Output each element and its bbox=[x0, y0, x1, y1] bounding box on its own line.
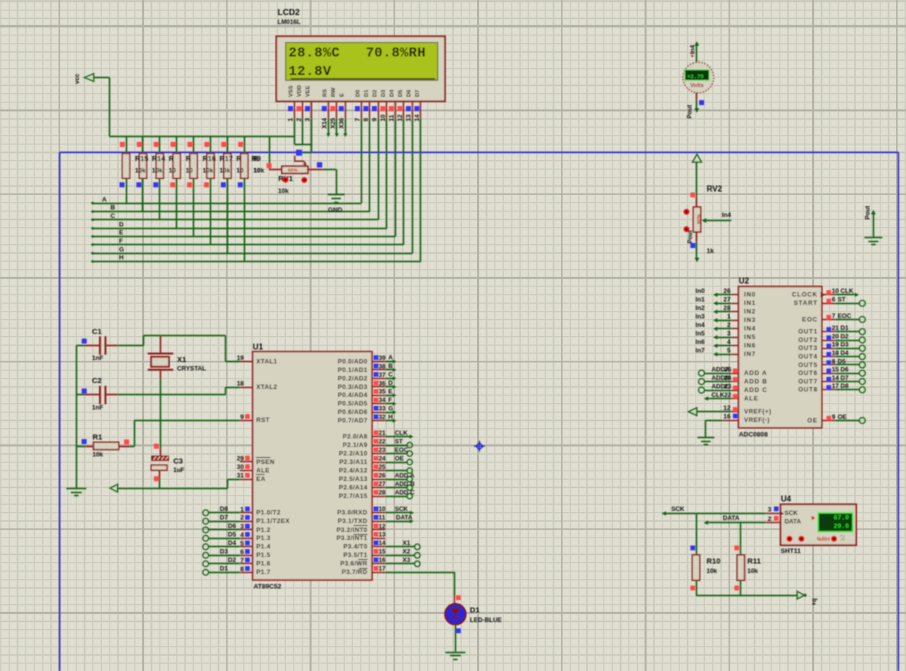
svg-text:IN7: IN7 bbox=[744, 351, 756, 358]
svg-text:P2.2/A10: P2.2/A10 bbox=[339, 451, 368, 458]
svg-text:29: 29 bbox=[237, 455, 245, 462]
svg-text:D: D bbox=[119, 222, 124, 229]
svg-text:P3.3/INT1: P3.3/INT1 bbox=[336, 535, 367, 542]
svg-text:20: 20 bbox=[832, 333, 840, 340]
svg-text:P3.4/T0: P3.4/T0 bbox=[343, 544, 367, 551]
svg-text:A: A bbox=[388, 355, 393, 362]
svg-text:OUT7: OUT7 bbox=[798, 378, 818, 385]
svg-text:START: START bbox=[794, 300, 818, 307]
svg-text:1uF: 1uF bbox=[173, 467, 184, 474]
svg-text:D1: D1 bbox=[364, 90, 370, 97]
svg-text:VREF(-): VREF(-) bbox=[744, 417, 770, 424]
svg-text:C2: C2 bbox=[92, 376, 102, 385]
svg-text:LM016L: LM016L bbox=[278, 19, 301, 26]
svg-text:23: 23 bbox=[724, 384, 732, 391]
svg-text:C1: C1 bbox=[92, 327, 102, 336]
svg-text:R: R bbox=[186, 154, 192, 163]
svg-text:17: 17 bbox=[379, 566, 387, 573]
svg-text:P2.1/A9: P2.1/A9 bbox=[343, 442, 368, 449]
svg-text:D3: D3 bbox=[841, 342, 850, 349]
svg-text:In7: In7 bbox=[696, 348, 706, 355]
svg-text:P2.0/A8: P2.0/A8 bbox=[343, 434, 368, 441]
svg-text:OUT8: OUT8 bbox=[798, 387, 818, 394]
svg-text:D6: D6 bbox=[406, 90, 412, 97]
svg-text:15: 15 bbox=[379, 549, 387, 556]
svg-text:G: G bbox=[388, 405, 393, 412]
svg-text:5: 5 bbox=[727, 348, 731, 355]
svg-text:B: B bbox=[388, 363, 393, 370]
svg-text:P0.4/AD4: P0.4/AD4 bbox=[338, 392, 368, 399]
svg-text:OE: OE bbox=[807, 417, 818, 424]
svg-text:U2: U2 bbox=[739, 277, 750, 286]
svg-text:CRYSTAL: CRYSTAL bbox=[177, 366, 206, 373]
svg-text:E: E bbox=[339, 93, 345, 97]
svg-text:P3.7/RD: P3.7/RD bbox=[342, 569, 368, 576]
svg-text:14: 14 bbox=[379, 540, 387, 547]
svg-text:OUT6: OUT6 bbox=[798, 370, 818, 377]
svg-text:C: C bbox=[111, 213, 116, 220]
svg-text:P1.2: P1.2 bbox=[256, 527, 271, 534]
svg-text:IN0: IN0 bbox=[744, 292, 756, 299]
svg-text:28: 28 bbox=[379, 490, 387, 497]
svg-text:D4: D4 bbox=[228, 540, 237, 547]
svg-text:XTAL1: XTAL1 bbox=[256, 358, 277, 365]
svg-text:RST: RST bbox=[256, 417, 270, 424]
svg-text:10k: 10k bbox=[93, 451, 104, 458]
svg-text:10k: 10k bbox=[278, 188, 289, 195]
svg-text:39: 39 bbox=[379, 355, 387, 362]
svg-text:DATA: DATA bbox=[785, 519, 802, 526]
svg-text:IN3: IN3 bbox=[744, 317, 756, 324]
svg-text:C3: C3 bbox=[173, 456, 183, 465]
svg-text:D7: D7 bbox=[415, 90, 421, 97]
svg-text:38: 38 bbox=[379, 363, 387, 370]
svg-text:RV2: RV2 bbox=[707, 184, 723, 193]
svg-text:VSS: VSS bbox=[289, 85, 295, 97]
svg-text:P0.3/AD3: P0.3/AD3 bbox=[338, 384, 368, 391]
svg-text:ADD B: ADD B bbox=[395, 481, 415, 488]
svg-text:2: 2 bbox=[768, 516, 772, 523]
svg-text:31: 31 bbox=[237, 473, 245, 480]
svg-text:X3: X3 bbox=[340, 121, 346, 129]
svg-text:10: 10 bbox=[169, 167, 177, 174]
svg-text:50%: 50% bbox=[288, 167, 298, 173]
svg-text:30: 30 bbox=[237, 464, 245, 471]
svg-text:25: 25 bbox=[724, 367, 732, 374]
svg-text:U1: U1 bbox=[253, 343, 264, 352]
svg-text:37: 37 bbox=[379, 372, 387, 379]
svg-text:P2.6/A14: P2.6/A14 bbox=[339, 485, 368, 492]
svg-text:1: 1 bbox=[288, 118, 295, 122]
svg-text:10: 10 bbox=[186, 167, 194, 174]
svg-text:D3: D3 bbox=[220, 549, 229, 556]
svg-text:SCK: SCK bbox=[785, 510, 799, 517]
svg-text:ALE: ALE bbox=[256, 467, 270, 474]
svg-text:A: A bbox=[102, 196, 107, 203]
svg-text:In4: In4 bbox=[696, 322, 706, 329]
svg-text:D5: D5 bbox=[228, 532, 237, 539]
svg-text:8: 8 bbox=[832, 358, 836, 365]
svg-text:P2.5/A13: P2.5/A13 bbox=[339, 476, 368, 483]
svg-text:1: 1 bbox=[727, 314, 731, 321]
svg-text:12.8V: 12.8V bbox=[289, 65, 332, 80]
svg-text:P1.3: P1.3 bbox=[256, 535, 271, 542]
svg-text:ADD C: ADD C bbox=[744, 387, 767, 394]
svg-text:29.0: 29.0 bbox=[834, 523, 850, 530]
svg-text:ADD B: ADD B bbox=[744, 379, 767, 386]
svg-text:26: 26 bbox=[379, 473, 387, 480]
svg-text:OUT2: OUT2 bbox=[798, 337, 818, 344]
svg-text:R14: R14 bbox=[152, 154, 165, 163]
svg-text:2: 2 bbox=[240, 515, 244, 522]
svg-text:24: 24 bbox=[724, 375, 732, 382]
svg-text:P2.4/A12: P2.4/A12 bbox=[339, 468, 368, 475]
svg-text:1k: 1k bbox=[707, 248, 715, 255]
svg-text:vcc: vcc bbox=[74, 73, 81, 84]
svg-text:3: 3 bbox=[305, 118, 312, 122]
svg-text:D2: D2 bbox=[228, 557, 237, 564]
svg-text:22: 22 bbox=[379, 439, 387, 446]
svg-text:1: 1 bbox=[240, 506, 244, 513]
svg-text:27: 27 bbox=[379, 481, 387, 488]
svg-text:H: H bbox=[388, 414, 393, 421]
svg-text:In0: In0 bbox=[696, 288, 706, 295]
svg-text:R11: R11 bbox=[747, 556, 761, 565]
svg-text:Pout: Pout bbox=[688, 230, 694, 243]
svg-text:7: 7 bbox=[240, 557, 244, 564]
svg-text:RS: RS bbox=[322, 89, 328, 97]
svg-text:R1: R1 bbox=[93, 432, 103, 441]
svg-text:X1: X1 bbox=[177, 355, 187, 364]
svg-text:IN5: IN5 bbox=[744, 334, 756, 341]
svg-text:13: 13 bbox=[406, 114, 413, 122]
svg-text:IN6: IN6 bbox=[744, 343, 756, 350]
svg-text:R: R bbox=[236, 154, 242, 163]
svg-text:LED-BLUE: LED-BLUE bbox=[470, 617, 502, 624]
svg-text:%RH: %RH bbox=[817, 537, 830, 543]
svg-text:27: 27 bbox=[723, 297, 731, 304]
svg-text:X2: X2 bbox=[403, 549, 411, 556]
svg-text:P2.3/A11: P2.3/A11 bbox=[339, 459, 368, 466]
svg-text:3: 3 bbox=[727, 331, 731, 338]
svg-text:U4: U4 bbox=[781, 495, 792, 504]
svg-text:18: 18 bbox=[237, 381, 245, 388]
svg-text:EOC: EOC bbox=[395, 447, 409, 454]
svg-text:P3.0/RXD: P3.0/RXD bbox=[337, 510, 368, 517]
svg-text:H: H bbox=[119, 255, 124, 262]
svg-text:10k: 10k bbox=[747, 568, 758, 575]
svg-text:R10: R10 bbox=[707, 556, 721, 565]
svg-text:E: E bbox=[388, 389, 392, 396]
svg-text:11: 11 bbox=[389, 114, 396, 121]
svg-text:P0.0/AD0: P0.0/AD0 bbox=[338, 358, 368, 365]
svg-text:In6: In6 bbox=[696, 339, 706, 346]
svg-text:In4: In4 bbox=[722, 212, 732, 219]
svg-text:G: G bbox=[119, 246, 124, 253]
svg-text:16: 16 bbox=[723, 414, 731, 421]
svg-text:P0.6/AD6: P0.6/AD6 bbox=[338, 409, 368, 416]
svg-text:SCK: SCK bbox=[395, 506, 409, 513]
svg-text:10k: 10k bbox=[220, 167, 231, 174]
svg-text:IN1: IN1 bbox=[744, 300, 756, 307]
svg-text:50%: 50% bbox=[696, 214, 702, 224]
svg-text:VREF(+): VREF(+) bbox=[744, 409, 771, 416]
svg-text:P3.5/T1: P3.5/T1 bbox=[343, 552, 367, 559]
svg-text:DATA: DATA bbox=[723, 515, 740, 522]
svg-text:ADD C: ADD C bbox=[395, 489, 415, 496]
svg-text:2: 2 bbox=[727, 322, 731, 329]
svg-text:D2: D2 bbox=[372, 90, 378, 97]
svg-text:IN2: IN2 bbox=[744, 309, 756, 316]
svg-text:PSEN: PSEN bbox=[256, 459, 275, 466]
svg-text:X1: X1 bbox=[403, 540, 411, 547]
svg-text:RW: RW bbox=[331, 87, 337, 97]
svg-text:10k: 10k bbox=[254, 167, 265, 174]
svg-text:24: 24 bbox=[379, 456, 387, 463]
svg-text:1nF: 1nF bbox=[92, 355, 103, 362]
svg-text:AT89C52: AT89C52 bbox=[254, 584, 282, 591]
svg-text:10k: 10k bbox=[152, 167, 163, 174]
svg-text:P2.7/A15: P2.7/A15 bbox=[339, 493, 368, 500]
svg-text:Pout: Pout bbox=[687, 105, 694, 119]
svg-text:XTAL2: XTAL2 bbox=[256, 384, 277, 391]
svg-text:1nF: 1nF bbox=[92, 405, 103, 412]
svg-text:19: 19 bbox=[832, 342, 840, 349]
svg-text:OUT1: OUT1 bbox=[798, 329, 818, 336]
svg-text:EA: EA bbox=[256, 476, 266, 483]
svg-text:R9: R9 bbox=[252, 154, 261, 163]
svg-text:SHT11: SHT11 bbox=[781, 548, 801, 555]
svg-text:+2.75: +2.75 bbox=[687, 73, 704, 80]
svg-text:9: 9 bbox=[832, 414, 836, 421]
svg-text:F: F bbox=[119, 238, 123, 245]
svg-text:Pout: Pout bbox=[865, 206, 872, 220]
svg-text:D8: D8 bbox=[220, 506, 229, 513]
svg-text:4: 4 bbox=[240, 532, 244, 539]
svg-text:+q: +q bbox=[812, 598, 818, 606]
svg-text:In1: In1 bbox=[696, 297, 706, 304]
svg-text:12: 12 bbox=[379, 523, 387, 530]
svg-text:28.8%C 70.8%RH: 28.8%C 70.8%RH bbox=[289, 47, 426, 62]
svg-text:25: 25 bbox=[379, 464, 387, 471]
svg-text:ST: ST bbox=[838, 297, 846, 304]
svg-text:15: 15 bbox=[832, 367, 840, 374]
svg-text:ADD A: ADD A bbox=[395, 472, 415, 479]
svg-text:7: 7 bbox=[832, 313, 836, 320]
svg-text:ALE: ALE bbox=[744, 396, 759, 403]
svg-text:SCK: SCK bbox=[671, 506, 685, 513]
svg-text:R15: R15 bbox=[135, 154, 148, 163]
svg-text:GND: GND bbox=[328, 207, 343, 214]
svg-text:8: 8 bbox=[240, 566, 244, 573]
svg-text:P1.4: P1.4 bbox=[256, 544, 271, 551]
svg-text:P3.6/WR: P3.6/WR bbox=[340, 561, 367, 568]
svg-text:P1.0/T2: P1.0/T2 bbox=[256, 510, 281, 517]
svg-text:21: 21 bbox=[379, 430, 387, 437]
svg-text:CLK: CLK bbox=[712, 392, 725, 399]
svg-text:P1.5: P1.5 bbox=[256, 552, 271, 559]
svg-text:D6: D6 bbox=[228, 523, 237, 530]
svg-text:Volts: Volts bbox=[690, 83, 703, 89]
svg-text:In2: In2 bbox=[696, 305, 706, 312]
svg-text:10k: 10k bbox=[135, 167, 146, 174]
svg-text:6: 6 bbox=[338, 118, 345, 122]
svg-text:D2: D2 bbox=[841, 333, 850, 340]
svg-text:D4: D4 bbox=[389, 89, 395, 97]
svg-text:6: 6 bbox=[240, 549, 244, 556]
svg-text:34: 34 bbox=[379, 397, 387, 404]
svg-text:P0.1/AD1: P0.1/AD1 bbox=[338, 367, 368, 374]
svg-text:16: 16 bbox=[379, 557, 387, 564]
svg-text:R: R bbox=[169, 154, 175, 163]
svg-text:OUT3: OUT3 bbox=[798, 345, 818, 352]
svg-text:R17: R17 bbox=[220, 154, 233, 163]
svg-text:4: 4 bbox=[727, 339, 731, 346]
svg-text:22: 22 bbox=[724, 392, 732, 399]
svg-text:X1: X1 bbox=[323, 121, 329, 129]
svg-text:P1.7: P1.7 bbox=[256, 569, 271, 576]
svg-text:35: 35 bbox=[379, 389, 387, 396]
svg-text:OE: OE bbox=[395, 455, 404, 462]
svg-text:10: 10 bbox=[379, 506, 387, 513]
svg-text:23: 23 bbox=[379, 447, 387, 454]
svg-text:E: E bbox=[119, 230, 124, 237]
svg-text:DATA: DATA bbox=[396, 514, 413, 521]
svg-text:CLK: CLK bbox=[395, 430, 408, 437]
svg-text:P3.2/INT0: P3.2/INT0 bbox=[336, 527, 367, 534]
svg-text:10: 10 bbox=[236, 167, 244, 174]
svg-text:VEE: VEE bbox=[306, 85, 312, 97]
svg-text:+In4: +In4 bbox=[690, 45, 697, 58]
svg-text:P1.6: P1.6 bbox=[256, 561, 271, 568]
svg-text:13: 13 bbox=[379, 532, 387, 539]
svg-text:IN4: IN4 bbox=[744, 326, 756, 333]
svg-text:EOC: EOC bbox=[802, 316, 818, 323]
svg-text:3: 3 bbox=[240, 523, 244, 530]
svg-text:CLOCK: CLOCK bbox=[792, 292, 818, 299]
svg-text:P3.1/TXD: P3.1/TXD bbox=[338, 518, 368, 525]
svg-text:P0.5/AD5: P0.5/AD5 bbox=[338, 401, 368, 408]
svg-text:OUT5: OUT5 bbox=[798, 362, 818, 369]
svg-text:9: 9 bbox=[240, 414, 244, 421]
svg-text:B: B bbox=[111, 205, 116, 212]
svg-text:28: 28 bbox=[723, 305, 731, 312]
svg-text:X2: X2 bbox=[331, 121, 337, 129]
svg-text:OUT4: OUT4 bbox=[798, 354, 818, 361]
svg-text:D1: D1 bbox=[220, 566, 229, 573]
svg-text:67.0: 67.0 bbox=[834, 515, 850, 522]
svg-text:4: 4 bbox=[321, 118, 328, 122]
svg-text:7: 7 bbox=[355, 118, 362, 122]
svg-text:5: 5 bbox=[240, 540, 244, 547]
svg-text:D: D bbox=[388, 380, 393, 387]
svg-text:In3: In3 bbox=[696, 314, 706, 321]
svg-text:ADD A: ADD A bbox=[744, 370, 767, 377]
svg-text:VDD: VDD bbox=[297, 85, 303, 97]
svg-text:ST: ST bbox=[395, 438, 403, 445]
svg-text:X3: X3 bbox=[403, 557, 411, 564]
svg-text:R16: R16 bbox=[203, 154, 216, 163]
svg-text:32: 32 bbox=[379, 414, 387, 421]
svg-text:26: 26 bbox=[723, 288, 731, 295]
svg-text:11: 11 bbox=[379, 515, 386, 522]
svg-text:P1.1/T2EX: P1.1/T2EX bbox=[256, 518, 290, 525]
svg-text:LCD2: LCD2 bbox=[278, 7, 300, 17]
svg-text:12: 12 bbox=[723, 405, 731, 412]
svg-text:3: 3 bbox=[768, 507, 772, 514]
svg-text:D1: D1 bbox=[470, 605, 480, 614]
svg-text:C: C bbox=[388, 372, 393, 379]
svg-text:D7: D7 bbox=[220, 514, 229, 521]
svg-text:6: 6 bbox=[832, 297, 836, 304]
svg-text:ADC0808: ADC0808 bbox=[739, 432, 768, 439]
svg-text:10k: 10k bbox=[707, 568, 718, 575]
svg-text:33: 33 bbox=[379, 406, 387, 413]
svg-text:D3: D3 bbox=[381, 90, 387, 97]
svg-text:D0: D0 bbox=[355, 90, 361, 97]
svg-text:9: 9 bbox=[372, 118, 379, 122]
svg-text:In5: In5 bbox=[696, 331, 706, 338]
svg-text:36: 36 bbox=[379, 380, 387, 387]
svg-text:10k: 10k bbox=[203, 167, 214, 174]
svg-text:D6: D6 bbox=[841, 367, 850, 374]
svg-text:P0.7/AD7: P0.7/AD7 bbox=[338, 418, 368, 425]
svg-text:F: F bbox=[388, 397, 392, 404]
svg-text:P0.2/AD2: P0.2/AD2 bbox=[338, 375, 368, 382]
svg-text:D5: D5 bbox=[398, 90, 404, 97]
